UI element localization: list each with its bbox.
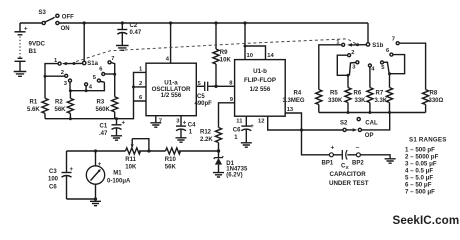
dashed gang line S1a-S1b: [76, 39, 358, 62]
resistor R10: [166, 148, 181, 154]
svg-text:S1a: S1a: [87, 61, 98, 67]
svg-text:S1b: S1b: [372, 43, 383, 49]
svg-text:+: +: [70, 167, 74, 173]
svg-text:2 – 5000 pF: 2 – 5000 pF: [405, 154, 439, 161]
svg-text:BP2: BP2: [352, 160, 364, 166]
svg-text:1/2 556: 1/2 556: [250, 86, 271, 93]
svg-text:R12: R12: [200, 129, 212, 135]
wire pins 10/14 from rail: [243, 21, 246, 24]
svg-text:1: 1: [139, 66, 143, 72]
switch S1b wiper: [347, 23, 384, 49]
svg-text:2.2K: 2.2K: [200, 137, 213, 143]
svg-text:9VDC: 9VDC: [29, 41, 46, 48]
wire timing bottom rail: [45, 101, 134, 119]
svg-text:OP: OP: [365, 133, 374, 139]
capacitor C1: [99, 119, 126, 137]
svg-text:1/2 556: 1/2 556: [161, 92, 182, 99]
wire S1b-1 to R4: [319, 45, 342, 90]
switch S3: [39, 10, 75, 32]
svg-text:2: 2: [351, 50, 354, 56]
svg-text:10K: 10K: [125, 164, 137, 170]
svg-text:4: 4: [371, 67, 375, 73]
svg-text:330Ω: 330Ω: [429, 98, 444, 104]
wire pin 9 to R12: [219, 103, 235, 128]
ground (C2): [116, 46, 129, 51]
op-amp U1-b (timer box): [235, 60, 286, 117]
resistor R4: [316, 90, 322, 105]
wire meter bottom: [67, 198, 96, 200]
svg-text:+: +: [122, 120, 126, 126]
svg-text:FLIP-FLOP: FLIP-FLOP: [244, 77, 276, 84]
svg-text:8: 8: [229, 80, 233, 86]
svg-text:UNDER TEST: UNDER TEST: [329, 180, 369, 187]
svg-text:3.3MEG: 3.3MEG: [283, 98, 305, 104]
ground (battery): [14, 72, 27, 77]
svg-text:R7: R7: [376, 91, 384, 97]
binding post BP2: [356, 153, 360, 157]
svg-text:1: 1: [189, 130, 193, 136]
ground (C1): [111, 136, 122, 140]
S1a contact 2: [65, 74, 68, 77]
S1b contact 6: [390, 53, 393, 56]
battery B1: [15, 23, 46, 72]
svg-text:6 – 50 μF: 6 – 50 μF: [405, 182, 432, 189]
switch S2 CAL/OP: [340, 113, 390, 140]
S1a contact 4: [85, 83, 88, 86]
svg-text:5 – 5.0 μF: 5 – 5.0 μF: [405, 175, 433, 182]
svg-text:M1: M1: [113, 170, 122, 176]
resistor R5: [345, 88, 351, 103]
S1b contact 1: [342, 43, 345, 46]
svg-text:14: 14: [267, 53, 274, 59]
svg-text:+: +: [24, 26, 28, 32]
wire contacts 3/4/5 row: [70, 82, 104, 91]
svg-text:R2: R2: [55, 100, 63, 106]
svg-text:56K: 56K: [165, 164, 177, 170]
S1a contact 1: [58, 62, 61, 65]
svg-text:7 – 500 μF: 7 – 500 μF: [405, 189, 435, 196]
svg-text:R1: R1: [30, 100, 38, 106]
resistor R9: [214, 21, 217, 24]
svg-text:5: 5: [93, 75, 97, 81]
resistor R7: [386, 88, 392, 103]
ground (M1): [95, 199, 97, 201]
capacitor C2: [117, 21, 142, 45]
svg-text:C4: C4: [188, 123, 196, 129]
S1a contact 7: [108, 61, 111, 64]
svg-text:4 – 0.5 μF: 4 – 0.5 μF: [405, 168, 433, 175]
svg-text:56K: 56K: [55, 107, 67, 113]
svg-text:R6: R6: [354, 91, 362, 97]
svg-text:OFF: OFF: [62, 15, 74, 21]
node (C5 / R9 / pin 8): [214, 85, 217, 88]
svg-text:+: +: [250, 124, 254, 130]
svg-text:S2: S2: [340, 120, 348, 126]
svg-text:6: 6: [139, 95, 143, 101]
svg-text:3.3K: 3.3K: [375, 98, 388, 104]
svg-text:490pF: 490pF: [195, 101, 213, 107]
svg-text:R8: R8: [430, 91, 438, 97]
svg-text:BP1: BP1: [322, 160, 334, 166]
S1b contact 5: [381, 61, 384, 64]
resistor R11 (pot): [126, 148, 141, 154]
svg-text:SeekIC.com: SeekIC.com: [393, 214, 460, 227]
node (R12 / R10 / D1): [217, 149, 220, 152]
svg-text:5: 5: [381, 65, 385, 71]
svg-text:5.6K: 5.6K: [27, 107, 40, 113]
svg-text:R9: R9: [220, 50, 228, 56]
wire S1b-4 to R6: [369, 67, 371, 88]
svg-text:9: 9: [230, 97, 234, 103]
svg-text:ON: ON: [61, 26, 70, 32]
svg-text:13: 13: [287, 107, 294, 113]
wire S1b-7 to R8: [399, 43, 425, 89]
S1b contact 4: [368, 64, 371, 67]
svg-text:+: +: [331, 145, 335, 152]
svg-text:10: 10: [247, 53, 253, 59]
diode D1 zener: [214, 151, 248, 179]
wire S1b-5/6 to R7: [384, 62, 390, 73]
pin 5 / capacitor C5: [196, 85, 204, 87]
meter M1: [86, 149, 131, 199]
svg-text:330K: 330K: [328, 98, 343, 104]
S1 ranges table: [405, 137, 447, 196]
wire BP2 to ground: [360, 155, 390, 159]
svg-text:11: 11: [236, 119, 243, 125]
svg-text:CAL: CAL: [365, 120, 378, 126]
svg-text:+: +: [98, 162, 102, 168]
pin 11 / capacitor C6: [245, 116, 247, 125]
svg-text:2: 2: [61, 70, 64, 76]
ground (C6): [241, 143, 252, 147]
svg-text:0-100μA: 0-100μA: [107, 178, 131, 184]
ground (C4): [176, 138, 187, 142]
S1b contact 2: [348, 54, 351, 57]
svg-text:C3: C3: [49, 169, 57, 175]
svg-text:7: 7: [392, 37, 395, 43]
svg-text:4: 4: [89, 84, 93, 90]
pin 3 / capacitor C4: [180, 116, 182, 126]
svg-text:10K: 10K: [220, 57, 232, 63]
svg-text:560K: 560K: [96, 107, 111, 113]
svg-text:C6: C6: [233, 127, 241, 133]
S1a contact 6: [102, 73, 105, 76]
S1b contact 3: [356, 61, 359, 64]
pin 4: [169, 21, 172, 24]
svg-text:CAPACITOR: CAPACITOR: [330, 171, 367, 178]
svg-text:6: 6: [99, 67, 103, 73]
svg-text:12: 12: [258, 119, 264, 125]
svg-text:0.47: 0.47: [130, 30, 142, 36]
wire S1b-2/3 to R5: [337, 55, 348, 75]
svg-text:7: 7: [111, 56, 114, 62]
svg-text:3: 3: [176, 118, 180, 124]
wire meter row: [67, 150, 219, 152]
op-amp U1-a (timer box): [146, 63, 196, 115]
capacitor C3: [48, 151, 74, 199]
wire range resistors bottom rail: [319, 112, 426, 114]
svg-text:R3: R3: [97, 100, 105, 106]
svg-text:2: 2: [139, 81, 142, 87]
svg-text:C6: C6: [49, 184, 57, 190]
wire pin 12: [268, 116, 343, 130]
svg-text:3: 3: [352, 65, 356, 71]
resistor R3: [112, 97, 118, 112]
S1b contact 7: [396, 42, 399, 45]
binding post BP1: [329, 153, 333, 157]
svg-text:C2: C2: [130, 23, 138, 29]
pin 7 ground: [155, 116, 157, 123]
svg-text:3: 3: [64, 81, 68, 87]
resistor R8: [423, 90, 429, 105]
ground (D1): [213, 173, 224, 177]
svg-text:.47: .47: [99, 131, 108, 137]
svg-text:C1: C1: [100, 123, 108, 129]
capacitor Cx under test: [333, 154, 356, 156]
svg-text:6: 6: [386, 48, 390, 54]
svg-text:R5: R5: [330, 91, 338, 97]
wire S1a-7 to R3: [111, 63, 115, 97]
R11 wiper: [132, 139, 149, 151]
svg-text:S1 RANGES: S1 RANGES: [409, 137, 447, 144]
S1a contact 5: [97, 79, 100, 82]
svg-text:U1-b: U1-b: [253, 68, 267, 75]
resistor R1: [42, 98, 48, 113]
svg-text:C5: C5: [197, 94, 205, 100]
wire S1a-6 to R3 line: [105, 73, 115, 75]
svg-text:S3: S3: [39, 10, 47, 16]
wire pins 1/2/6 bracket: [134, 72, 147, 101]
svg-text:–: –: [356, 144, 360, 151]
svg-text:B1: B1: [29, 48, 37, 55]
svg-text:(6.2V): (6.2V): [226, 173, 242, 179]
svg-text:R10: R10: [165, 157, 177, 163]
svg-text:33K: 33K: [355, 98, 367, 104]
svg-text:R4: R4: [294, 91, 302, 97]
resistor R2: [69, 91, 71, 99]
switch S1a wiper: [62, 23, 99, 67]
svg-text:R11: R11: [125, 157, 136, 163]
wire pin 13: [285, 113, 329, 155]
node (rail to S1a wiper): [83, 21, 86, 24]
resistor R12: [215, 128, 221, 143]
svg-text:100: 100: [48, 176, 59, 182]
svg-text:4: 4: [166, 57, 170, 63]
wire S1a-1/2 to R1 top: [45, 64, 65, 99]
svg-text:3 – 0.05 μF: 3 – 0.05 μF: [405, 161, 437, 168]
resistor R6: [367, 88, 373, 103]
wire top supply rail: [59, 22, 368, 24]
wire S1a-3 to R2 top: [69, 82, 71, 91]
S1a contact 3: [69, 79, 72, 82]
svg-text:1: 1: [234, 135, 238, 141]
svg-text:1 – 500 pF: 1 – 500 pF: [405, 147, 435, 154]
